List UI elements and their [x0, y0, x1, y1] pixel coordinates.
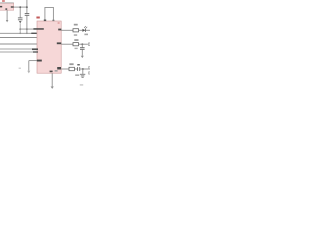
pin label left low a: [32, 48, 38, 50]
right pin 3 wire: [61, 68, 69, 70]
node branch 3: [82, 68, 84, 70]
wire C4 out: [80, 68, 90, 70]
wire down to gnd: [28, 61, 30, 71]
faint text bottom right: [80, 84, 83, 85]
crystal X1 label: [2, 0, 5, 2]
resistor R2 name: [74, 39, 78, 41]
wire bus line 5: [0, 48, 37, 50]
right pin 2 wire: [61, 43, 73, 45]
LED D1: [82, 29, 85, 32]
capacitor C3: [80, 47, 85, 49]
wire crystal to caps: [14, 6, 27, 8]
crystal X1: [0, 3, 14, 10]
ground left faint: [27, 71, 30, 74]
wire branch C2: [26, 0, 28, 13]
ground bars 3: [80, 73, 85, 75]
wire R3 to C4: [74, 68, 77, 70]
top loop wire: [45, 7, 54, 21]
pin label left low b: [33, 51, 38, 52]
wire C1 to bus: [19, 23, 21, 33]
wire bus line 4: [0, 43, 37, 45]
node branch 2: [82, 44, 84, 45]
LED D1 value: [84, 34, 88, 36]
wire bus line 1: [20, 28, 37, 30]
wire bus line 3: [0, 37, 37, 39]
wire bus line 6: [0, 51, 37, 53]
capacitor C2: [25, 13, 30, 15]
crystal X1 pin right: [11, 6, 14, 7]
bottom left pin wire: [29, 60, 37, 62]
top pin 2 mark: [52, 20, 54, 21]
wire LED out: [86, 29, 90, 31]
right pin 1 wire: [61, 29, 73, 31]
op-amp U3 body: [37, 21, 61, 73]
wire bottom pin: [51, 73, 53, 86]
wire R1 to LED: [79, 29, 83, 31]
right pin 1 label: [58, 29, 61, 31]
wire bus line 2: [0, 32, 37, 34]
top pin 1 mark: [44, 20, 46, 22]
wire branch C1: [19, 7, 21, 18]
right pin 3 label2: [55, 70, 58, 72]
right pin 3 label: [57, 67, 61, 70]
resistor R2: [73, 43, 79, 46]
IC U3 label: [36, 17, 39, 19]
port box 3b: [89, 72, 90, 74]
faint text near left gnd: [19, 68, 21, 70]
port box 3a: [89, 67, 90, 69]
port box 2: [89, 43, 91, 46]
capacitor C1: [18, 17, 23, 19]
IC top inner red dash: [58, 22, 60, 23]
junction dots: [19, 6, 21, 8]
ground under crystal: [6, 10, 8, 20]
wire R2 out: [79, 43, 88, 45]
capacitor C4 series: [77, 67, 79, 71]
capacitor C4 value: [75, 74, 79, 76]
crystal X1 top bar: [0, 2, 14, 4]
pin 1 name label: [33, 28, 43, 30]
ground under IC: [51, 87, 54, 89]
ground under C3: [81, 50, 83, 56]
right pin 2 label: [57, 42, 62, 44]
bottom pin label: [50, 71, 53, 73]
resistor R1 name: [74, 24, 78, 26]
pin 2 label: [31, 33, 36, 34]
ground arrow C1: [19, 21, 22, 23]
resistor R3: [69, 67, 74, 70]
bottom left pin label: [37, 60, 42, 62]
resistor R2 value: [75, 48, 78, 49]
crystal X1 pin bottom label: [5, 8, 7, 10]
resistor R1 value: [74, 34, 77, 36]
capacitor C4 name: [77, 64, 80, 66]
wire C2 to bus: [26, 16, 28, 34]
resistor R1: [73, 29, 79, 32]
crystal X1 pin left: [0, 6, 2, 8]
resistor R3 name: [69, 63, 73, 65]
